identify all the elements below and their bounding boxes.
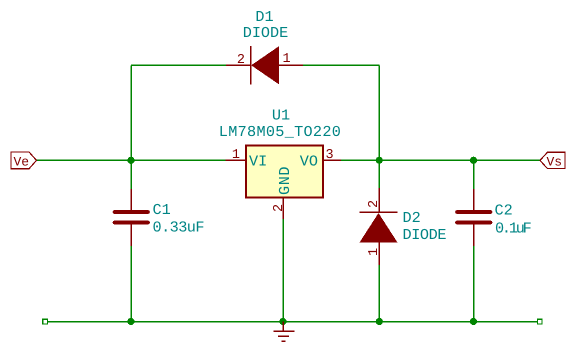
- U1 pin 1 number: [232, 148, 240, 163]
- U1 pin 2 lead GND: [282, 198, 284, 220]
- U1 reference label: [272, 107, 290, 125]
- U1 pin 2 number (rotated): [272, 204, 287, 212]
- junction at C2 column / bottom rail: [470, 318, 477, 325]
- svg-text:GND: GND: [276, 166, 294, 195]
- U1 pin name VI: [249, 152, 267, 170]
- diode D2: [360, 188, 398, 265]
- U1 pin name GND (rotated): [276, 166, 294, 195]
- wire D2 column upper: [378, 160, 380, 188]
- wire C2 column upper: [473, 160, 475, 189]
- U1 pin 3 number: [326, 148, 334, 163]
- ground symbol: [274, 322, 295, 342]
- diode D1: [226, 46, 303, 85]
- U1 pin 3 lead VO: [323, 159, 341, 161]
- wire D2 column lower: [378, 265, 380, 322]
- svg-text:0.33uF: 0.33uF: [153, 218, 205, 236]
- svg-text:1: 1: [283, 52, 291, 67]
- wire right column top rail down to main rail: [378, 65, 380, 160]
- unconnected end square bottom-left: [43, 319, 48, 324]
- wire main rail Ve to U1 pin1: [37, 159, 226, 161]
- junction at C2 column / main rail: [470, 157, 477, 164]
- junction at D2 column / bottom rail: [376, 318, 383, 325]
- wire C2 column lower: [473, 246, 475, 322]
- D2 value label DIODE: [403, 226, 447, 244]
- svg-text:U1: U1: [272, 107, 290, 125]
- C1 value label: [153, 218, 205, 236]
- svg-text:1: 1: [367, 248, 382, 256]
- capacitor C1: [115, 189, 149, 246]
- wire top rail left green segment: [131, 64, 226, 66]
- junction at left column / bottom rail: [127, 318, 134, 325]
- wire bottom rail: [48, 321, 538, 323]
- C2 value label: [495, 219, 532, 237]
- junction at D2 column / main rail: [376, 157, 383, 164]
- svg-text:C2: C2: [495, 201, 513, 219]
- svg-text:2: 2: [367, 200, 382, 208]
- D1 value label DIODE: [243, 24, 289, 42]
- svg-text:DIODE: DIODE: [403, 226, 447, 244]
- unconnected end square bottom-right: [538, 319, 543, 324]
- wire left column upper (top rail to C1): [130, 65, 132, 189]
- svg-text:VI: VI: [249, 152, 267, 170]
- svg-text:DIODE: DIODE: [243, 24, 289, 42]
- wire GND column U1 pin2 to bottom rail: [282, 219, 284, 322]
- op-amp U1 regulator body LM78M05: [246, 146, 323, 198]
- D1 pin 1 number: [283, 52, 291, 67]
- wire top rail right green segment: [303, 64, 379, 66]
- svg-text:0.1uF: 0.1uF: [495, 219, 532, 237]
- svg-text:Vs: Vs: [547, 155, 563, 170]
- svg-text:Ve: Ve: [14, 155, 30, 170]
- D1 pin 2 number: [237, 53, 245, 68]
- svg-text:2: 2: [272, 204, 287, 212]
- global label Ve: [11, 152, 37, 170]
- U1 pin 1 lead VI: [225, 159, 246, 161]
- capacitor C2: [457, 189, 491, 246]
- U1 pin name VO: [300, 152, 318, 170]
- wire main rail U1 pin3 to Vs: [341, 159, 540, 161]
- U1 value label LM78M05_TO220: [219, 123, 341, 141]
- global label Vs: [540, 152, 565, 169]
- svg-text:C1: C1: [153, 201, 171, 219]
- D1 reference label: [255, 8, 273, 26]
- svg-text:D2: D2: [403, 209, 421, 227]
- svg-text:LM78M05_TO220: LM78M05_TO220: [219, 123, 341, 141]
- D2 pin 2 number (rotated): [367, 200, 382, 208]
- svg-text:2: 2: [237, 53, 245, 68]
- C1 reference label: [153, 201, 171, 219]
- wire left column lower (C1 to bottom rail): [130, 246, 132, 322]
- svg-text:VO: VO: [300, 152, 318, 170]
- D2 pin 1 number (rotated): [367, 248, 382, 256]
- C2 reference label: [495, 201, 513, 219]
- junction at GND column / bottom rail: [279, 318, 286, 325]
- D2 reference label: [403, 209, 421, 227]
- svg-text:3: 3: [326, 148, 334, 163]
- junction at left column / main rail: [127, 157, 134, 164]
- svg-text:1: 1: [232, 148, 240, 163]
